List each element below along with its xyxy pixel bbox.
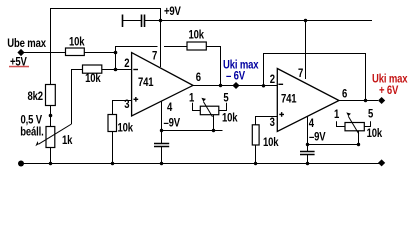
svg-text:beáll.: beáll.: [20, 125, 44, 138]
svg-text:1k: 1k: [62, 134, 73, 147]
svg-text:10k: 10k: [69, 36, 85, 49]
svg-text:6: 6: [196, 71, 201, 84]
svg-text:+9V: +9V: [164, 5, 181, 18]
svg-text:741: 741: [281, 92, 296, 105]
svg-text:–9V: –9V: [309, 130, 326, 143]
svg-text:7: 7: [152, 50, 157, 63]
svg-text:2: 2: [124, 57, 129, 70]
svg-text:10k: 10k: [189, 28, 205, 41]
svg-text:10k: 10k: [263, 136, 279, 149]
svg-text:2: 2: [270, 73, 275, 86]
svg-text:3: 3: [124, 98, 129, 111]
svg-text:10k: 10k: [222, 111, 238, 124]
svg-text:8k2: 8k2: [28, 90, 43, 103]
svg-text:10k: 10k: [118, 121, 134, 134]
svg-text:7: 7: [298, 67, 303, 80]
svg-text:–9V: –9V: [164, 116, 181, 129]
svg-text:+5V: +5V: [10, 55, 27, 68]
svg-text:1: 1: [189, 91, 194, 104]
svg-text:1: 1: [334, 108, 339, 121]
svg-text:+ 6V: + 6V: [379, 84, 399, 97]
svg-text:3: 3: [270, 116, 275, 129]
svg-text:5: 5: [368, 107, 373, 120]
svg-text:6: 6: [342, 87, 347, 100]
svg-text:10k: 10k: [85, 72, 101, 85]
svg-text:5: 5: [223, 91, 228, 104]
svg-text:10k: 10k: [367, 127, 383, 140]
svg-text:– 6V: – 6V: [226, 70, 246, 83]
svg-text:741: 741: [138, 76, 153, 89]
svg-text:Ube max: Ube max: [7, 37, 46, 50]
